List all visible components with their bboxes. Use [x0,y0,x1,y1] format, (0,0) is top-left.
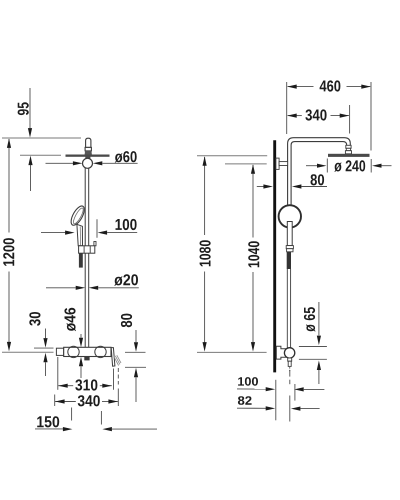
diverter knob below bar [84,357,89,361]
hand shower handle (side view) [287,222,292,246]
wall face extension line [275,380,277,421]
reference line at head level (right) [197,155,267,157]
dimension ø20 [46,274,139,290]
wall outlet body (side view) [276,346,286,359]
dimension 95 [18,88,33,191]
hand shower head [68,204,86,227]
hand shower hose stub [79,253,83,267]
shower hose [287,269,290,348]
mixer right knob [95,346,106,357]
wall line [273,140,276,372]
hose nut [286,246,293,252]
dimension ø240 [306,159,392,173]
reference line at shower head level [20,154,61,156]
bottom reference line (mixer axis) [2,351,54,353]
dimension 150 [35,408,157,432]
hose centre line [289,370,291,422]
dimension 340 [55,368,119,406]
dimension 310 [58,357,114,391]
dimension 340 (right view) [287,105,349,134]
outlet knob circle [284,348,294,358]
dimension ø60 [46,151,138,165]
outlet nozzle [288,358,292,372]
overhead shower disc (front view) [66,155,110,159]
column top knob [85,138,92,154]
bottom reference line (right) [197,351,267,353]
dimension 100 (right view) [237,377,324,391]
mixer bar left cap [56,348,63,355]
dimension ø65 [299,302,327,384]
hose upper dark segment [287,252,291,269]
head connector nut [345,145,351,154]
hand shower handle [77,224,83,246]
dimension 460 [287,80,371,150]
dimension 30 [29,312,53,376]
reference line 1040 top [225,163,267,165]
dimension ø46 [64,308,83,378]
dimension 1080 [200,156,211,351]
pipe connector ball [83,158,93,168]
dimension 1200 [3,138,14,351]
top reference line (unit top) [2,137,81,139]
overhead shower disc (side view) [328,154,370,157]
riser pipe (front view) [85,159,89,348]
dimension 80 (left view) [121,314,146,402]
shower arm [288,138,351,207]
dimension 80 (right view) [257,174,327,188]
hand shower holder clamp [79,242,96,254]
holder outer-edge extension line [294,384,296,401]
hand shower holder (side view) [279,205,301,227]
mixer bar body [64,347,111,356]
mixer left knob [68,346,79,357]
dimension 1040 [248,164,259,351]
wall mount bracket [276,158,288,169]
mixer lever [111,348,121,367]
dimension 82 [237,396,320,411]
dimension 100 [41,219,137,238]
